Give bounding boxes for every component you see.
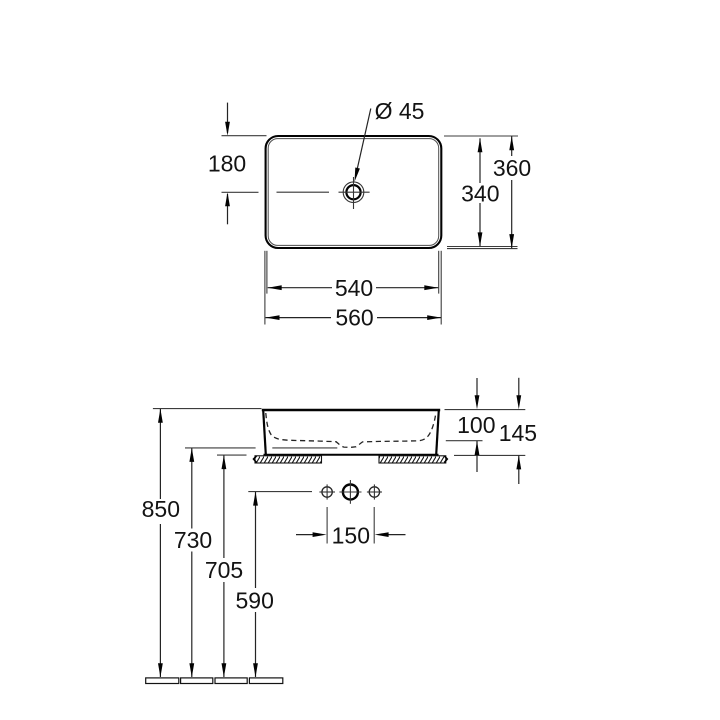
bottom-right extension lines: [440, 251, 442, 325]
dim 100: [476, 378, 478, 396]
dim 340 line: [479, 138, 481, 183]
dim 150 right arrow: [388, 534, 406, 536]
dim 730: [191, 448, 193, 528]
extension line 590: [248, 491, 312, 493]
svg-text:340: 340: [461, 180, 499, 206]
faucet hole right small circle: [369, 487, 379, 497]
extension line 730: [185, 447, 256, 449]
dim 145: [518, 378, 520, 396]
countertop hatch left segment: [255, 456, 322, 463]
basin outer rim (top view): [266, 136, 442, 248]
dim 180 bottom extension line: [222, 191, 259, 193]
hatch broken-end mark right: [444, 456, 447, 463]
dim 590: [255, 492, 257, 588]
leader line Ø45: [356, 109, 371, 174]
svg-text:560: 560: [335, 305, 373, 331]
tap hole crosshair vertical: [353, 177, 355, 209]
tap hole crosshair horizontal: [339, 191, 370, 193]
basin right wall (front): [436, 410, 439, 455]
svg-text:705: 705: [205, 557, 243, 583]
svg-text:850: 850: [142, 496, 180, 522]
svg-text:145: 145: [499, 420, 537, 446]
inner bowl dashed profile: [266, 412, 436, 447]
extension line 705: [217, 454, 247, 456]
right extension line top: [444, 135, 518, 137]
tap hole outer circle: [343, 182, 364, 203]
dim 180 top extension line: [222, 135, 267, 137]
dim 150 extension lines: [326, 507, 328, 544]
basin inner rim (top view): [268, 139, 439, 246]
svg-text:540: 540: [335, 275, 373, 301]
dim 705: [223, 455, 225, 558]
svg-text:Ø 45: Ø 45: [375, 98, 425, 124]
floor tile 1: [146, 678, 179, 684]
faucet hole left small circle: [322, 487, 332, 497]
left top extension line (850): [153, 408, 262, 410]
hatch broken-end mark left: [254, 456, 257, 463]
interior bottom line (730 level): [272, 447, 337, 449]
basin left wall (front): [263, 410, 266, 455]
svg-text:590: 590: [236, 587, 274, 613]
floor tile 4: [249, 678, 282, 684]
tap hole inner circle: [346, 185, 360, 199]
right extension line bottom inner: [447, 246, 518, 248]
extension line 100 bottom: [446, 440, 483, 442]
dim 150 left arrow: [296, 534, 313, 536]
extension line 145 bottom: [454, 454, 525, 456]
dim 540 line: [268, 287, 332, 289]
bottom-left extension lines: [264, 251, 266, 325]
svg-text:360: 360: [493, 155, 531, 181]
centre line to hole: [277, 191, 330, 193]
dim 180 top arrow: [227, 103, 229, 133]
dim 180 bottom arrow: [227, 194, 229, 224]
svg-text:180: 180: [208, 151, 246, 177]
svg-text:100: 100: [457, 412, 495, 438]
faucet hole middle circle: [343, 485, 358, 500]
floor tile 3: [215, 678, 247, 684]
floor tile 2: [181, 678, 213, 684]
basin top edge (front): [262, 409, 440, 412]
basin bottom edge (front): [264, 454, 439, 456]
dim 360 line: [511, 136, 513, 156]
countertop hatch right segment: [379, 456, 446, 463]
svg-text:730: 730: [174, 527, 212, 553]
right top extension line (front): [445, 409, 526, 411]
right extension line bottom outer: [447, 248, 518, 250]
dim 560 line: [266, 317, 332, 319]
dim 850: [159, 409, 161, 499]
svg-text:150: 150: [332, 523, 370, 549]
